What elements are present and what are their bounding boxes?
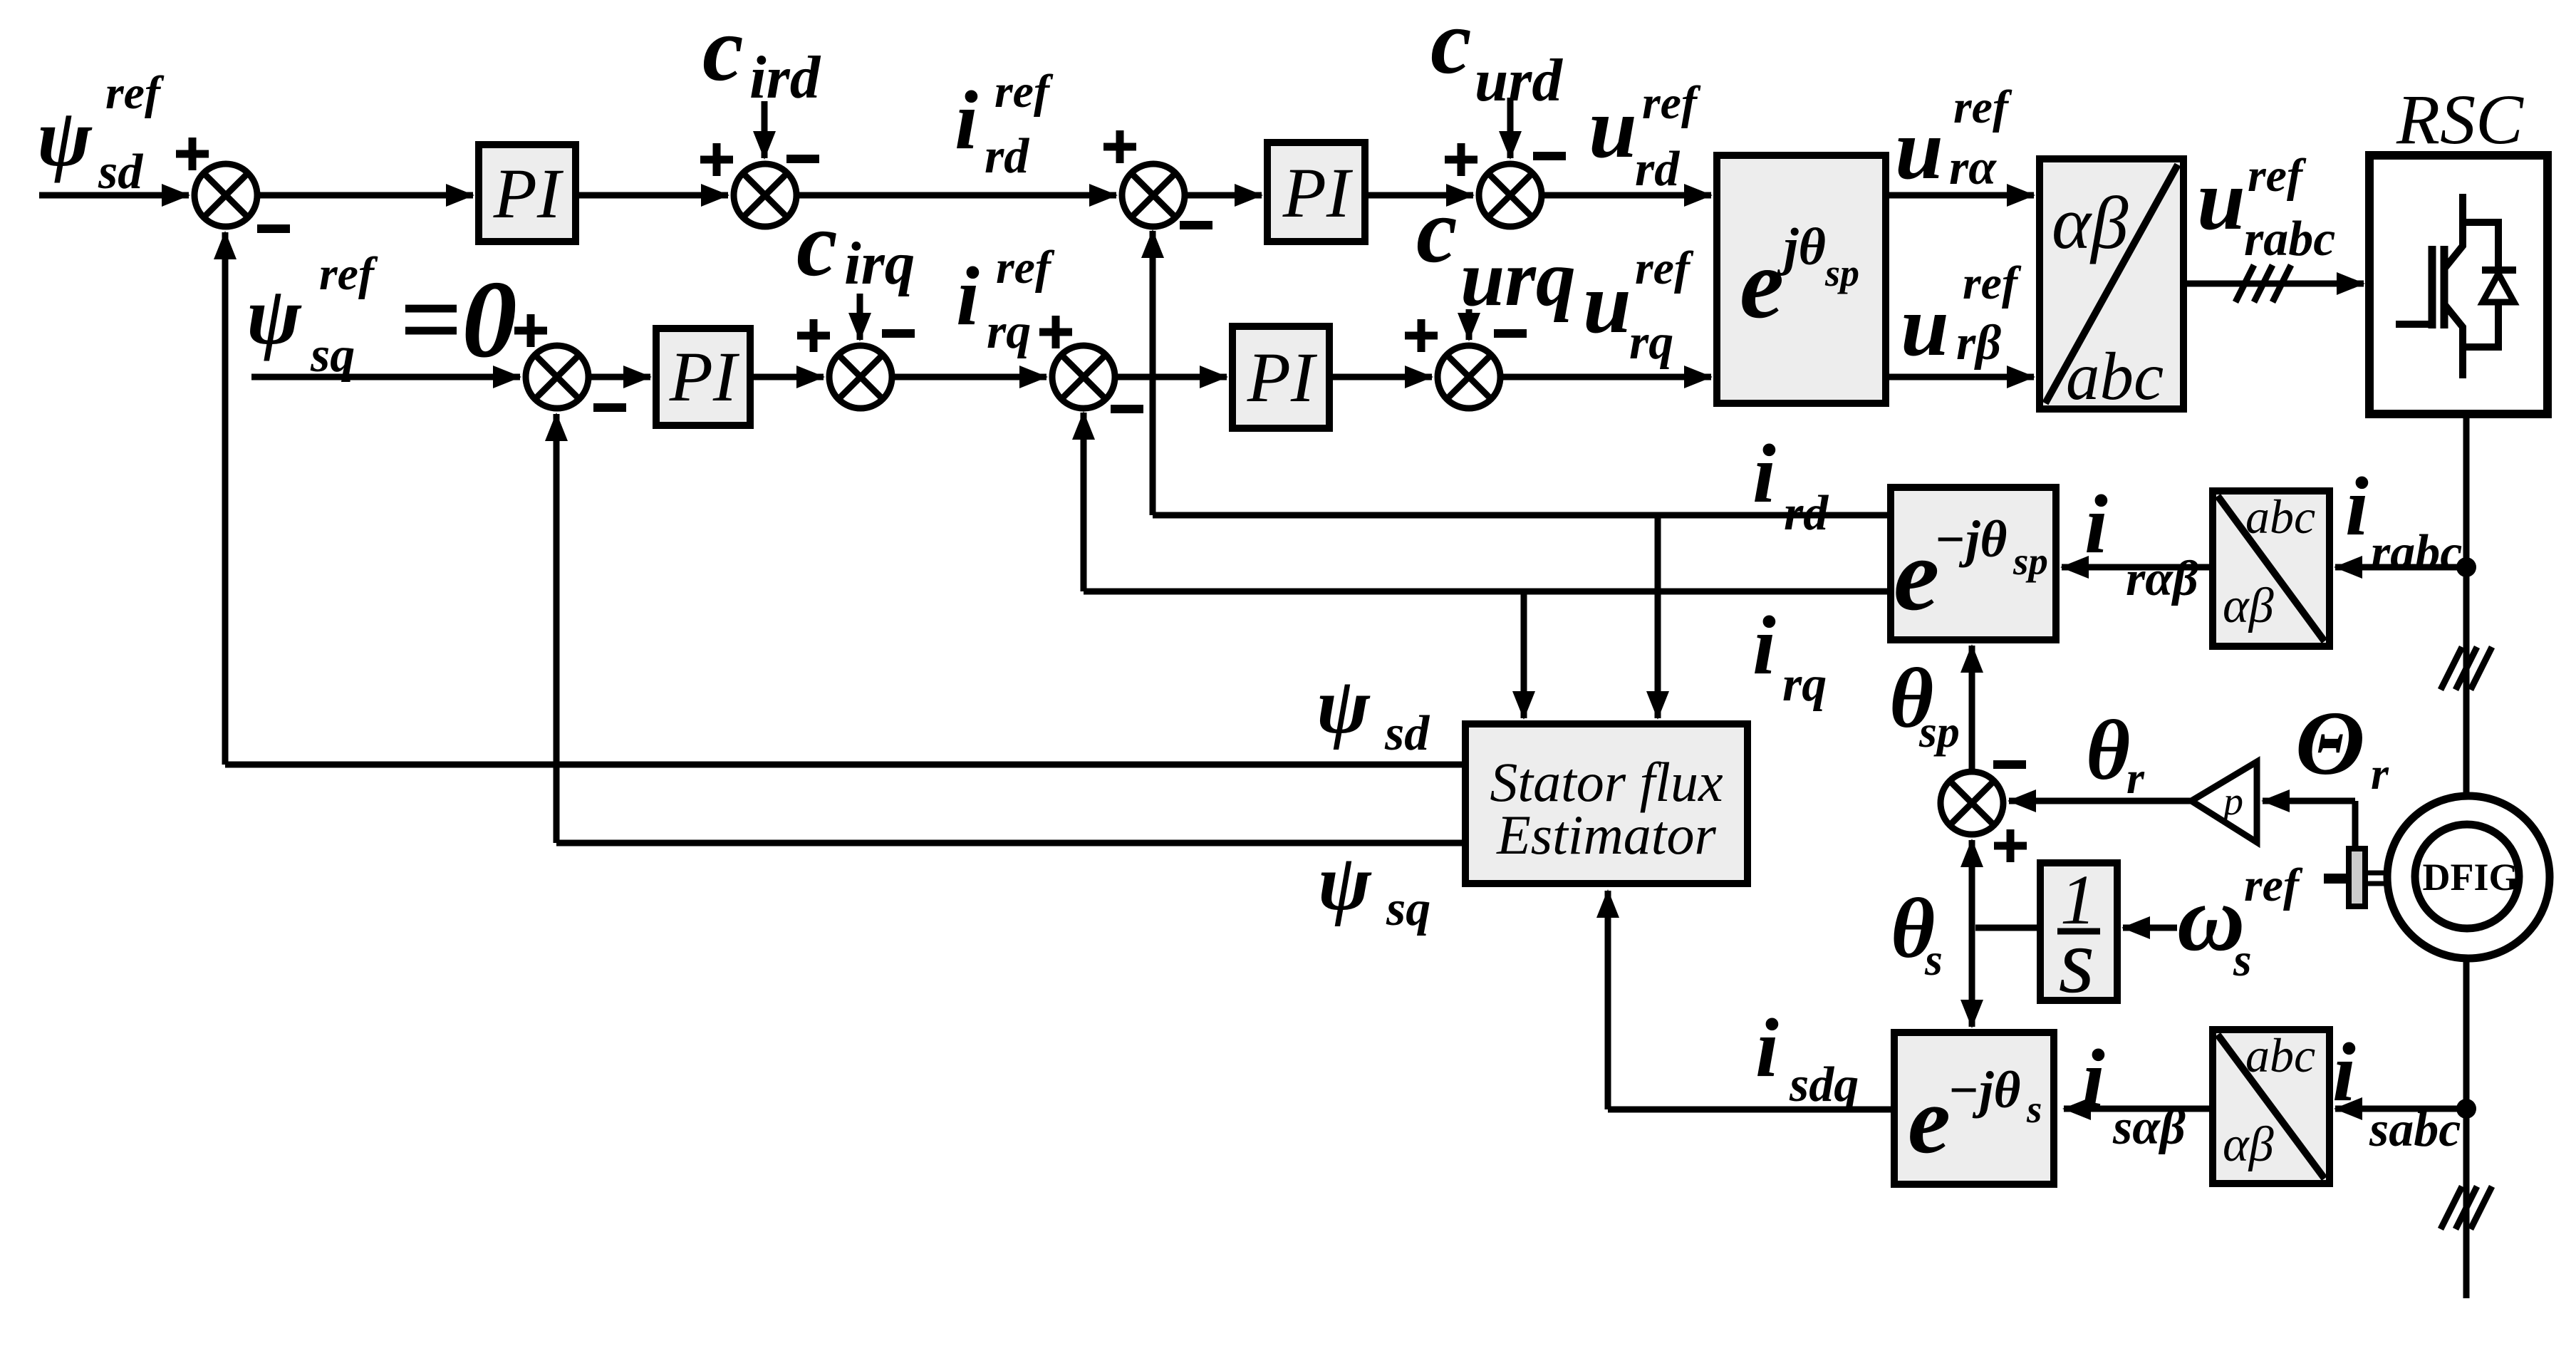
svg-text:u: u [1583, 255, 1631, 351]
plus sign at S2q input [797, 319, 830, 352]
IGBT gate bar [2429, 246, 2436, 328]
wire psi_sq feedback up into S1q [554, 414, 560, 843]
svg-text:ref: ref [1642, 77, 1701, 129]
wire psi_sd output [225, 762, 1465, 768]
transform block abc to alphabeta (rotor) [2213, 491, 2330, 646]
plus sign at S1q input [514, 314, 547, 347]
label u_ralpha_ref [1895, 81, 2012, 197]
IGBT emitter lead [2445, 305, 2463, 378]
svg-text:sd: sd [98, 145, 143, 200]
plus sign at S3 input [1103, 130, 1136, 163]
label i_ralphabeta [2084, 477, 2198, 606]
label i_sabc [2332, 1025, 2461, 1157]
svg-text:c: c [702, 0, 744, 100]
wire i_ralphabeta [2062, 564, 2213, 571]
summing junction S1 [194, 164, 257, 227]
plus sign at S4q input [1405, 319, 1438, 352]
wire S4 to ejtheta block [1542, 192, 1711, 199]
wire psi_sq_ref input [251, 374, 520, 380]
svg-text:Estimator: Estimator [1496, 804, 1716, 866]
wire PI4 to S4q [1329, 374, 1432, 380]
plus sign at S3q input [1039, 316, 1072, 348]
label i_sdq [1755, 1001, 1859, 1112]
label u_rq_ref [1583, 242, 1694, 370]
stator flux estimator block [1465, 724, 1747, 884]
svg-text:DFIG: DFIG [2423, 856, 2519, 899]
svg-text:jθ: jθ [1777, 218, 1826, 276]
label u_rbeta_ref [1901, 257, 2022, 374]
svg-text:PI: PI [1282, 153, 1354, 232]
svg-text:θ: θ [2086, 703, 2130, 797]
svg-text:rd: rd [1784, 486, 1829, 541]
plus sign at S2 input [700, 143, 733, 176]
svg-text:r: r [2371, 748, 2389, 799]
PI controller PI2 (current d) [1267, 143, 1365, 242]
wire theta_s down into e^-jtheta_s [1969, 928, 1975, 1027]
wire i_rd tap down to estimator [1655, 515, 1661, 718]
minus sign at S4 top [1533, 152, 1566, 160]
svg-text:c: c [1430, 0, 1472, 93]
diode triangle [2483, 274, 2514, 302]
svg-text:ref: ref [2244, 859, 2303, 911]
transform block alphabeta to abc [2040, 159, 2183, 409]
wire PI1 to S2 [576, 192, 728, 199]
wire psi_sq output [556, 840, 1465, 847]
svg-text:sdq: sdq [1789, 1057, 1859, 1112]
wire i_rd from block to S3 corner [1153, 512, 1891, 519]
summing junction S1q [526, 346, 588, 408]
wire c_urd drop [1507, 98, 1514, 158]
wire i_rd feedback up into S3 [1150, 231, 1156, 515]
label alphabeta in block [2052, 181, 2129, 264]
wire theta_r to S5 [2009, 798, 2191, 804]
label e^(j theta_sp) [1740, 218, 1859, 339]
fraction bar of 1/s [2057, 928, 2100, 935]
svg-text:i: i [1752, 599, 1776, 692]
integrator block 1 over s [2040, 863, 2117, 1000]
svg-text:abc: abc [2245, 490, 2315, 544]
wire S2 to S3 [796, 192, 1116, 199]
wire theta_s up into S5 [1969, 840, 1975, 928]
label i_rd [1752, 427, 1829, 541]
label p in triangle [2221, 780, 2243, 824]
wire i_salphabeta [2064, 1106, 2213, 1112]
minus sign at S2 top [786, 155, 819, 163]
svg-text:rβ: rβ [1956, 316, 2001, 371]
label abc in stator block [2245, 1028, 2315, 1082]
svg-text:Θ: Θ [2295, 693, 2365, 794]
rotation block e^(-j theta_sp) [1891, 487, 2056, 640]
svg-text:u: u [1895, 101, 1943, 197]
wire S1 to PI1 [257, 192, 473, 199]
svg-text:αβ: αβ [2223, 579, 2274, 633]
minus sign at S1 feedback [257, 224, 290, 233]
label stator flux line1 [1490, 751, 1723, 813]
svg-text:abc: abc [2245, 1028, 2315, 1082]
label RSC [2396, 80, 2524, 159]
diagonal of rotor abc/alphabeta block [2218, 496, 2325, 641]
RSC converter block [2369, 155, 2548, 414]
svg-text:ref: ref [996, 242, 1055, 294]
label PI2 [1282, 153, 1354, 232]
label omega_s_ref [2177, 859, 2303, 986]
svg-text:i: i [2345, 460, 2369, 553]
svg-text:urq: urq [1460, 234, 1576, 323]
svg-text:u: u [2197, 152, 2245, 248]
svg-text:c: c [1416, 180, 1458, 282]
svg-text:−jθ: −jθ [1934, 510, 2007, 568]
label theta_r [2086, 703, 2145, 803]
svg-text:rα: rα [1949, 140, 1997, 195]
label abc in rotor block [2245, 490, 2315, 544]
wire u_rabc to RSC [2183, 281, 2364, 287]
minus sign at S3q feedback [1111, 405, 1143, 413]
wire theta_sp up into rotation block [1969, 646, 1975, 770]
wire S3q to PI4 [1115, 374, 1227, 380]
svg-text:sd: sd [1384, 706, 1430, 761]
wire c_urq drop [1466, 309, 1473, 340]
svg-text:i: i [2084, 477, 2108, 571]
label u_rabc_ref [2197, 150, 2335, 266]
wire RSC to DFIG rotor [2463, 414, 2470, 794]
label integrator denominator s [2059, 910, 2095, 1013]
svg-text:ref: ref [319, 248, 378, 300]
svg-text:ref: ref [105, 67, 165, 119]
minus sign at S3 feedback [1180, 221, 1212, 229]
wire c_irq drop [857, 294, 863, 340]
diagonal of stator abc/alphabeta block [2218, 1035, 2325, 1179]
junction dot i_rabc tap [2456, 557, 2476, 577]
label psi_sd_ref [37, 67, 165, 200]
svg-text:PI: PI [1247, 338, 1318, 417]
svg-text:irq: irq [844, 230, 915, 297]
svg-text:=0: =0 [399, 258, 517, 380]
svg-text:ref: ref [1953, 81, 2012, 133]
minus sign at S1q feedback [593, 403, 626, 412]
svg-text:ψ: ψ [1316, 662, 1371, 750]
three-phase slash rotor wire [2441, 647, 2492, 690]
label abc in block [2066, 338, 2164, 414]
summing junction S3q [1052, 346, 1115, 408]
wire Theta_r into triangle [2263, 798, 2355, 804]
svg-text:p: p [2221, 780, 2243, 824]
shaft coupler bar [2349, 849, 2365, 906]
minus sign at S5 theta_r input [1993, 760, 2026, 769]
svg-text:e: e [1740, 229, 1784, 339]
gain triangle p (pole pairs) [2191, 762, 2257, 842]
svg-text:s: s [2059, 910, 2095, 1013]
svg-text:sp: sp [2012, 539, 2048, 583]
wire 1/s output to theta_s node [1975, 925, 2040, 931]
label psi_sq_ref equals 0 [246, 248, 517, 383]
label theta_s [1891, 881, 1943, 985]
svg-text:i: i [956, 249, 980, 343]
svg-text:urd: urd [1475, 47, 1563, 114]
svg-text:rq: rq [1629, 315, 1673, 370]
label PI3 [669, 337, 740, 416]
svg-text:e: e [1908, 1067, 1951, 1174]
label i_rabc [2345, 460, 2462, 580]
svg-text:rq: rq [987, 304, 1031, 359]
svg-text:rd: rd [985, 129, 1029, 184]
label integrator numerator 1 [2060, 860, 2096, 939]
svg-text:sαβ: sαβ [2112, 1100, 2186, 1155]
label psi_sq [1318, 839, 1430, 936]
wire S4q to ejtheta block [1500, 374, 1711, 380]
wire S1q to PI3 [588, 374, 650, 380]
svg-text:ird: ird [749, 44, 821, 111]
label psi_sd [1316, 662, 1430, 761]
label c_urq [1416, 180, 1576, 323]
svg-text:−jθ: −jθ [1948, 1061, 2020, 1119]
label u_rd_ref [1589, 77, 1701, 197]
wire psi_sd_ref input [39, 192, 189, 199]
wire i_rq tap down to estimator [1521, 591, 1527, 718]
minus sign at S4q top [1494, 329, 1527, 338]
wire PI3 to S2q [750, 374, 824, 380]
label alphabeta in rotor block [2223, 579, 2274, 633]
junction dot i_sabc tap [2456, 1099, 2476, 1119]
label i_rq [1752, 599, 1827, 712]
wire i_sdq up into estimator [1605, 891, 1611, 1109]
svg-text:rd: rd [1635, 142, 1680, 197]
svg-text:rq: rq [1782, 657, 1827, 712]
transform block abc to alphabeta (stator) [2213, 1030, 2330, 1184]
IGBT collector lead [2445, 194, 2463, 268]
svg-text:ψ: ψ [246, 271, 302, 361]
plus sign at S5 theta_s input [1994, 829, 2027, 862]
plus sign at S4 input [1445, 143, 1477, 176]
svg-text:s: s [2233, 934, 2252, 986]
summing junction S4q [1438, 346, 1500, 408]
label i_salphabeta [2082, 1032, 2186, 1155]
wire PI2 to S4 [1365, 192, 1473, 199]
svg-text:u: u [1589, 80, 1637, 176]
wire c_ird drop [762, 101, 768, 158]
IGBT gate lead [2396, 321, 2432, 328]
svg-text:ref: ref [1963, 257, 2022, 309]
summing junction S4 [1479, 164, 1542, 227]
label PI4 [1247, 338, 1318, 417]
label stator flux line2 [1496, 804, 1716, 866]
svg-text:sabc: sabc [2369, 1102, 2461, 1157]
minus sign at S2q top [882, 329, 915, 338]
label e^(-j theta_sp) [1894, 510, 2048, 632]
machine DFIG inner circle [2415, 824, 2519, 928]
wire omega_s_ref input [2123, 925, 2177, 931]
wire u_ralpha ref [1886, 192, 2034, 199]
svg-text:ref: ref [1635, 242, 1694, 294]
shaft stub [2324, 874, 2350, 884]
plus sign at S1 input [176, 138, 209, 170]
svg-text:ref: ref [994, 66, 1054, 118]
svg-text:s: s [1924, 934, 1943, 985]
svg-text:sp: sp [1824, 252, 1859, 294]
svg-text:ref: ref [2248, 150, 2307, 202]
label PI1 [493, 154, 564, 233]
svg-text:αβ: αβ [2052, 181, 2129, 264]
label theta_sp [1889, 651, 1960, 757]
wire i_sabc to abc block [2335, 1106, 2466, 1112]
wire i_rq feedback up into S3q [1081, 413, 1087, 591]
svg-text:αβ: αβ [2223, 1117, 2274, 1172]
wire i_sdq output [1608, 1107, 1894, 1113]
label i_rd_ref [955, 66, 1054, 184]
svg-text:rabc: rabc [2244, 212, 2335, 266]
PI controller PI4 (current q) [1232, 326, 1329, 428]
svg-text:PI: PI [669, 337, 740, 416]
wire S2q to S3q [892, 374, 1046, 380]
label e^(-j theta_s) [1908, 1061, 2042, 1174]
summing junction S5 (slip angle) [1941, 772, 2003, 834]
summing junction S3 [1122, 164, 1185, 227]
IGBT top connection to diode [2463, 222, 2498, 269]
svg-text:RSC: RSC [2396, 80, 2524, 159]
svg-text:ψ: ψ [37, 93, 93, 183]
svg-text:abc: abc [2066, 338, 2164, 414]
label c_ird [702, 0, 821, 111]
wire Theta_r from shaft encoder [2352, 801, 2359, 849]
svg-text:i: i [2082, 1032, 2105, 1125]
wire DFIG stator down [2463, 958, 2470, 1298]
three-phase slash on u_rabc [2235, 265, 2291, 302]
svg-text:PI: PI [493, 154, 564, 233]
diode bottom connection [2463, 302, 2498, 347]
svg-text:c: c [796, 193, 838, 296]
rotation block e^(-j theta_s) [1894, 1032, 2054, 1184]
svg-text:sp: sp [1918, 706, 1960, 757]
PI controller PI1 (flux d) [479, 145, 576, 242]
svg-text:i: i [955, 73, 978, 167]
diode cathode bar [2482, 266, 2516, 274]
svg-text:sq: sq [1386, 881, 1430, 936]
svg-text:s: s [2026, 1087, 2042, 1131]
PI controller PI3 (flux q) [656, 328, 750, 425]
svg-text:rabc: rabc [2371, 525, 2462, 580]
wire S3 to PI2 [1185, 192, 1262, 199]
wire psi_sd feedback up into S1 [222, 232, 229, 765]
wire u_rbeta ref [1886, 374, 2034, 380]
svg-text:ψ: ψ [1318, 839, 1372, 927]
svg-text:e: e [1894, 518, 1939, 632]
svg-text:u: u [1901, 278, 1949, 374]
wire i_rabc to abc block [2335, 564, 2466, 571]
three-phase slash stator wire [2441, 1186, 2492, 1229]
label Theta_r capital [2295, 693, 2389, 799]
shaft double line [2365, 871, 2389, 876]
svg-text:rαβ: rαβ [2126, 552, 2198, 606]
label DFIG [2423, 856, 2519, 899]
svg-text:i: i [1755, 1001, 1779, 1094]
label c_urd [1430, 0, 1563, 114]
svg-text:r: r [2126, 752, 2145, 803]
wire i_rq from block to S3q corner [1084, 589, 1891, 595]
IGBT body bar [2441, 246, 2448, 328]
label alphabeta in stator block [2223, 1117, 2274, 1172]
label c_irq [796, 193, 915, 297]
machine DFIG outer circle [2387, 796, 2550, 958]
summing junction S2 [734, 164, 796, 227]
summing junction S2q [829, 346, 892, 408]
rotation block e^(j theta_sp) [1717, 155, 1886, 403]
svg-text:i: i [1752, 427, 1776, 520]
diagonal of alphabeta/abc block [2045, 165, 2178, 403]
svg-text:i: i [2332, 1025, 2356, 1119]
label i_rq_ref [956, 242, 1055, 359]
